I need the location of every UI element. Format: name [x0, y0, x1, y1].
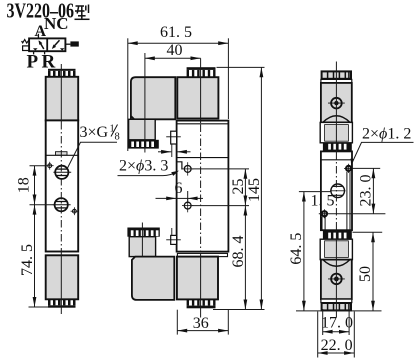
dim 50: [372, 232, 374, 311]
valve symbol spring: [22, 40, 30, 44]
dim 6: [156, 180, 204, 202]
svg-text:18: 18: [16, 177, 33, 193]
svg-text:1. 5: 1. 5: [311, 193, 335, 210]
title CJK glyph 型: [75, 5, 90, 20]
svg-text:61. 5: 61. 5: [160, 24, 192, 41]
valve symbol left cell flow arrow A-R: [39, 40, 44, 49]
side view centerline: [335, 62, 337, 318]
body bottom flange: [177, 253, 227, 256]
svg-text:23. 0: 23. 0: [357, 175, 374, 207]
svg-text:2×ϕ3. 3: 2×ϕ3. 3: [119, 158, 168, 175]
dim 36: [177, 310, 228, 335]
dim 25: [244, 169, 246, 206]
pilot hole top (phi 1.2): [344, 164, 353, 173]
body top flange line: [177, 123, 229, 125]
svg-text:2×ϕ1. 2: 2×ϕ1. 2: [362, 126, 411, 143]
groove below top hole: [347, 172, 350, 230]
valve symbol solenoid: [65, 43, 70, 45]
svg-text:25: 25: [230, 179, 247, 195]
dim 74.5: [34, 205, 36, 307]
bottom connector gland: [129, 237, 155, 257]
svg-text:3×G: 3×G: [80, 124, 109, 141]
bottom solenoid fins: [187, 299, 216, 308]
left view top fins: [48, 69, 76, 77]
top connector gland centerline: [144, 53, 146, 153]
dim 23.0 ext top: [353, 167, 380, 169]
dim 61.5 extension lines: [128, 38, 229, 151]
left view small hole right: [71, 207, 79, 215]
middle solenoid axis centerline: [200, 58, 202, 317]
svg-text:6: 6: [175, 180, 183, 197]
mounting hole 2: [182, 199, 193, 212]
left view top gray block: [46, 77, 78, 121]
svg-text:74. 5: 74. 5: [19, 244, 36, 276]
counterbore notch: [177, 162, 182, 170]
svg-text:145: 145: [246, 178, 263, 202]
dim 50 ext top: [353, 231, 383, 233]
side port circle: [330, 184, 346, 198]
bottom ext line under side view: [296, 310, 382, 312]
dim 40: [145, 57, 201, 59]
side top box1: [321, 83, 352, 123]
small dim arrows at button: [158, 151, 191, 153]
side bottom fins cap: [322, 303, 351, 310]
mounting hole 1: [182, 162, 193, 175]
ext bottom for 145/68.4: [213, 309, 265, 311]
label 2x phi 1.2: [351, 126, 414, 166]
valve symbol right cell flow arrow P-A: [52, 40, 60, 49]
valve symbol right cell blocked port R: [60, 48, 65, 50]
side top ribs row: [323, 143, 352, 151]
svg-text:50: 50: [357, 266, 374, 282]
left view bottom fins: [48, 299, 76, 307]
top solenoid coil: [177, 77, 218, 118]
ext top for 145: [217, 66, 265, 68]
dim 64.5 ext top: [299, 191, 331, 193]
svg-text:P: P: [27, 52, 39, 73]
left view port circle 2: [53, 198, 71, 211]
left view bottom flange band: [46, 254, 78, 256]
left view small hole left: [46, 162, 54, 170]
dim 23.0: [372, 168, 374, 213]
left view centerline: [60, 64, 62, 314]
left view port circle 1: [53, 166, 71, 179]
side top screw: [328, 98, 345, 109]
dim 17.0: [323, 309, 349, 335]
side bottom box2: [320, 239, 352, 259]
side top dome: [323, 116, 350, 123]
groove below bottom hole: [322, 217, 325, 230]
side bottom ribs row: [323, 231, 352, 239]
side bottom screw: [328, 274, 345, 285]
side top fins cap: [322, 71, 351, 78]
svg-text:68. 4: 68. 4: [230, 236, 247, 268]
valve symbol body: [29, 38, 65, 51]
svg-text:40: 40: [167, 42, 183, 59]
top solenoid fins: [187, 67, 216, 77]
bottom connector gland centerline: [141, 223, 143, 257]
pilot hole bottom (phi 1.2): [322, 209, 327, 218]
label 3xG1/8: [68, 124, 120, 169]
side top band: [321, 79, 352, 83]
valve symbol port stubs: [34, 34, 45, 55]
dim 145: [260, 67, 262, 309]
side bottom box1: [321, 260, 352, 300]
svg-text:NC: NC: [44, 14, 69, 33]
svg-text:8: 8: [115, 132, 120, 143]
dim 61.5: [128, 42, 229, 44]
dim 22.0: [318, 312, 355, 358]
svg-text:22. 0: 22. 0: [321, 337, 353, 354]
valve body (front): [177, 121, 229, 252]
side bottom dome: [323, 260, 350, 267]
bottom connector housing: [132, 257, 174, 300]
valve symbol left cell blocked port P: [33, 48, 38, 50]
left view body top seam and tab: [46, 154, 78, 156]
side body seam: [321, 159, 352, 161]
dim 18 extension lines: [30, 166, 54, 205]
top connector gland ribs: [128, 140, 159, 149]
bottom solenoid coil: [177, 257, 218, 300]
extension lines from holes to right: [192, 169, 249, 206]
svg-text:64. 5: 64. 5: [288, 233, 305, 265]
valve symbol pilot box: [23, 46, 30, 51]
bottom connector gland ribs: [127, 228, 159, 237]
manual override button bottom: [166, 228, 181, 244]
top connector housing: [131, 77, 175, 119]
body seam line: [177, 157, 229, 159]
side body: [321, 151, 352, 230]
dim 68.4: [244, 206, 246, 310]
side top box2: [320, 122, 352, 142]
manual override button top: [166, 131, 181, 157]
svg-text:36: 36: [193, 315, 209, 332]
dim 64.5: [303, 192, 305, 311]
side bottom band: [321, 299, 352, 303]
top connector gland: [129, 119, 156, 140]
ext line through bottom hole: [319, 213, 386, 215]
left view bottom gray block: [46, 255, 78, 299]
dim 18: [34, 166, 36, 205]
svg-text:17. 0: 17. 0: [321, 315, 353, 332]
left view body: [46, 120, 78, 251]
